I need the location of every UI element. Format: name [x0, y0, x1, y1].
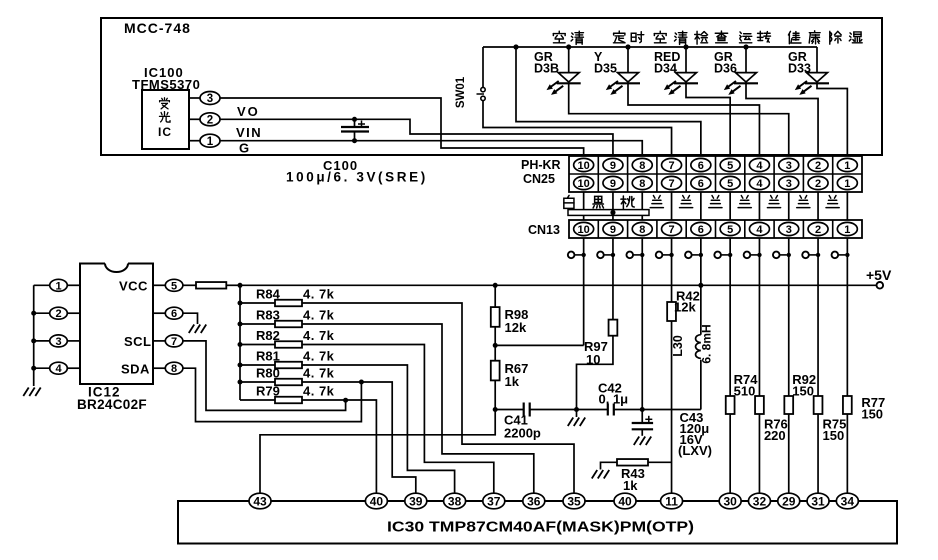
svg-text:D3B: D3B [534, 62, 559, 76]
svg-text:CN13: CN13 [528, 223, 560, 237]
svg-text:7: 7 [668, 224, 674, 236]
svg-text:10: 10 [578, 160, 590, 172]
svg-text:5: 5 [727, 178, 733, 190]
svg-text:5: 5 [171, 280, 177, 292]
svg-text:2: 2 [815, 178, 821, 190]
svg-text:35: 35 [567, 494, 581, 508]
svg-text:220: 220 [764, 428, 786, 443]
svg-text:100μ/6. 3V(SRE): 100μ/6. 3V(SRE) [286, 170, 428, 185]
svg-text:150: 150 [861, 407, 883, 422]
svg-text:R84: R84 [256, 287, 281, 302]
svg-text:SDA: SDA [121, 362, 150, 377]
svg-text:6: 6 [698, 224, 704, 236]
svg-text:4: 4 [756, 160, 763, 172]
svg-text:+5V: +5V [866, 267, 892, 283]
svg-text:8: 8 [639, 224, 645, 236]
svg-text:1: 1 [844, 160, 850, 172]
svg-text:11: 11 [665, 494, 678, 508]
svg-text:SW01: SW01 [455, 76, 467, 108]
svg-text:5: 5 [727, 160, 733, 172]
svg-text:9: 9 [610, 160, 616, 172]
svg-text:7: 7 [668, 178, 674, 190]
svg-text:BR24C02F: BR24C02F [77, 397, 147, 412]
svg-text:43: 43 [253, 494, 267, 508]
svg-text:1: 1 [55, 280, 61, 292]
svg-text:32: 32 [753, 494, 767, 508]
svg-text:40: 40 [618, 494, 632, 508]
svg-text:3: 3 [207, 93, 213, 105]
svg-text:TFMS5370: TFMS5370 [132, 77, 200, 92]
svg-text:IC30 TMP87CM40AF(MASK)PM(OTP): IC30 TMP87CM40AF(MASK)PM(OTP) [387, 520, 694, 536]
svg-text:1k: 1k [623, 478, 638, 493]
svg-text:2: 2 [55, 308, 61, 320]
svg-text:3: 3 [55, 336, 61, 348]
svg-text:3: 3 [786, 224, 792, 236]
svg-text:3: 3 [786, 178, 792, 190]
svg-text:VO: VO [237, 104, 260, 119]
svg-text:4. 7k: 4. 7k [303, 308, 335, 323]
svg-text:D35: D35 [594, 62, 617, 76]
svg-text:R83: R83 [256, 308, 280, 323]
svg-text:4: 4 [756, 224, 763, 236]
svg-text:4. 7k: 4. 7k [303, 328, 335, 343]
svg-text:R81: R81 [256, 349, 280, 364]
svg-text:10: 10 [578, 178, 590, 190]
svg-text:1k: 1k [505, 374, 520, 389]
svg-text:G: G [239, 141, 249, 156]
svg-text:8: 8 [639, 160, 645, 172]
svg-text:10: 10 [586, 352, 600, 367]
svg-text:40: 40 [370, 494, 384, 508]
svg-text:4: 4 [55, 363, 62, 375]
svg-text:4. 7k: 4. 7k [303, 349, 335, 364]
svg-text:CN25: CN25 [523, 172, 555, 186]
svg-text:SCL: SCL [124, 334, 152, 349]
svg-text:1: 1 [844, 224, 850, 236]
svg-text:150: 150 [792, 384, 814, 399]
svg-text:D34: D34 [654, 62, 677, 76]
svg-text:1: 1 [207, 136, 214, 148]
svg-text:36: 36 [527, 494, 541, 508]
svg-text:4. 7k: 4. 7k [303, 366, 335, 381]
svg-text:6: 6 [171, 308, 177, 320]
svg-text:(LXV): (LXV) [678, 443, 712, 458]
svg-text:8: 8 [639, 178, 645, 190]
svg-text:34: 34 [841, 494, 855, 508]
svg-text:30: 30 [723, 494, 737, 508]
svg-text:12k: 12k [505, 320, 527, 335]
svg-text:D36: D36 [714, 62, 737, 76]
svg-text:7: 7 [171, 336, 177, 348]
svg-text:7: 7 [668, 160, 674, 172]
svg-text:R79: R79 [256, 384, 280, 399]
svg-text:D33: D33 [788, 62, 811, 76]
svg-text:VCC: VCC [119, 279, 148, 294]
svg-text:2: 2 [815, 224, 821, 236]
svg-text:PH-KR: PH-KR [521, 158, 561, 172]
svg-text:4: 4 [756, 178, 763, 190]
svg-text:R80: R80 [256, 366, 280, 381]
svg-text:29: 29 [782, 494, 796, 508]
svg-text:5: 5 [727, 224, 733, 236]
svg-text:2: 2 [815, 160, 821, 172]
svg-text:510: 510 [734, 384, 756, 399]
svg-text:3: 3 [786, 160, 792, 172]
svg-text:8: 8 [171, 363, 177, 375]
svg-text:2: 2 [207, 114, 213, 126]
svg-text:150: 150 [823, 428, 845, 443]
svg-text:9: 9 [610, 178, 616, 190]
svg-text:39: 39 [409, 494, 423, 508]
svg-text:MCC-748: MCC-748 [124, 20, 191, 36]
svg-text:4. 7k: 4. 7k [303, 384, 335, 399]
svg-text:31: 31 [811, 494, 825, 508]
svg-text:VIN: VIN [236, 125, 262, 140]
svg-text:L30: L30 [671, 335, 685, 357]
svg-text:2200p: 2200p [504, 426, 541, 441]
svg-text:R82: R82 [256, 328, 280, 343]
svg-text:10: 10 [578, 224, 590, 236]
svg-text:6. 8mH: 6. 8mH [700, 324, 714, 363]
svg-text:37: 37 [487, 494, 501, 508]
svg-text:4. 7k: 4. 7k [303, 287, 335, 302]
svg-text:9: 9 [610, 224, 616, 236]
svg-text:12k: 12k [674, 300, 696, 315]
svg-text:1: 1 [844, 178, 850, 190]
svg-text:6: 6 [698, 160, 704, 172]
svg-text:0. 1μ: 0. 1μ [599, 392, 629, 407]
svg-text:IC: IC [158, 125, 172, 139]
svg-text:6: 6 [698, 178, 704, 190]
svg-text:38: 38 [448, 494, 462, 508]
